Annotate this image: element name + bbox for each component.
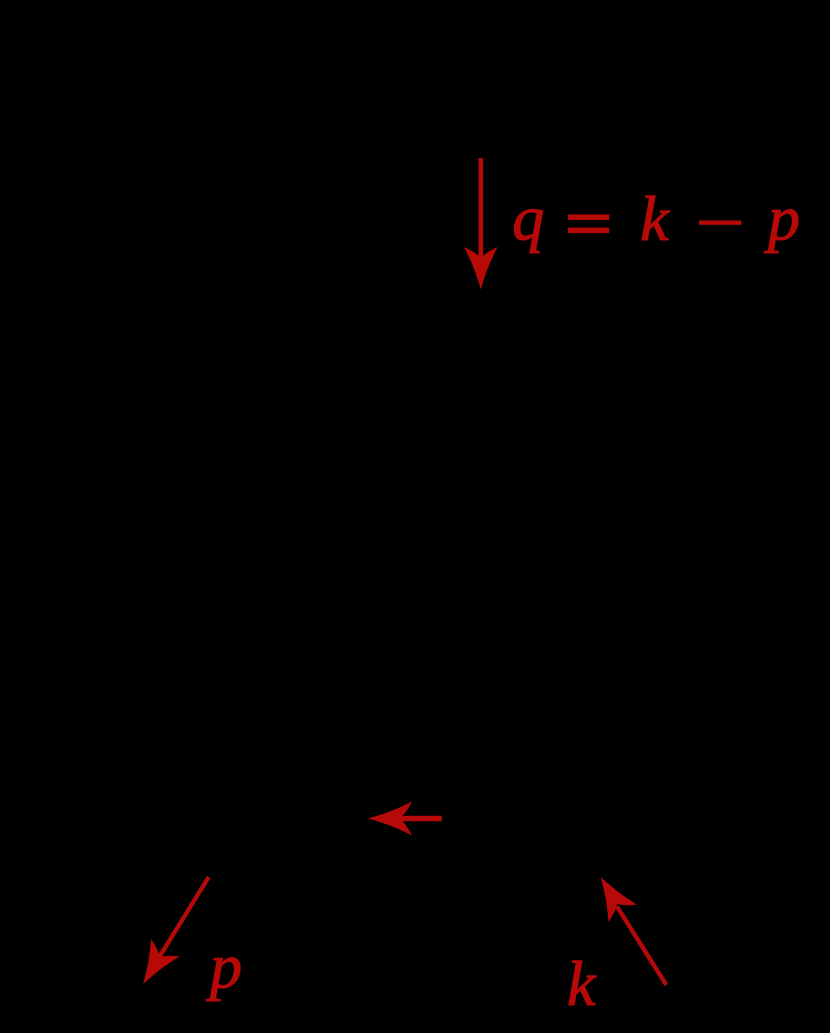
wire: electron momentum arrow p shaft xyxy=(157,877,209,962)
node: momentum arrowhead p (down-left) xyxy=(143,939,180,984)
wire: loop momentum arrow (left) shaft xyxy=(399,816,442,822)
label k xyxy=(567,948,597,1019)
wire: electron momentum arrow k shaft xyxy=(617,907,666,986)
node: loop momentum arrowhead (left) xyxy=(368,802,412,836)
node: momentum arrowhead k (up-left) xyxy=(601,877,637,922)
svg-text:p: p xyxy=(764,183,800,254)
svg-text:p: p xyxy=(206,931,242,1002)
svg-text:k: k xyxy=(640,183,670,254)
node: photon momentum arrowhead (down) xyxy=(464,247,498,290)
svg-text:q: q xyxy=(512,183,544,254)
label p xyxy=(206,931,242,1002)
wire: photon momentum arrow q shaft xyxy=(478,158,483,263)
label q = k - p xyxy=(512,183,800,254)
svg-text:k: k xyxy=(567,948,597,1019)
